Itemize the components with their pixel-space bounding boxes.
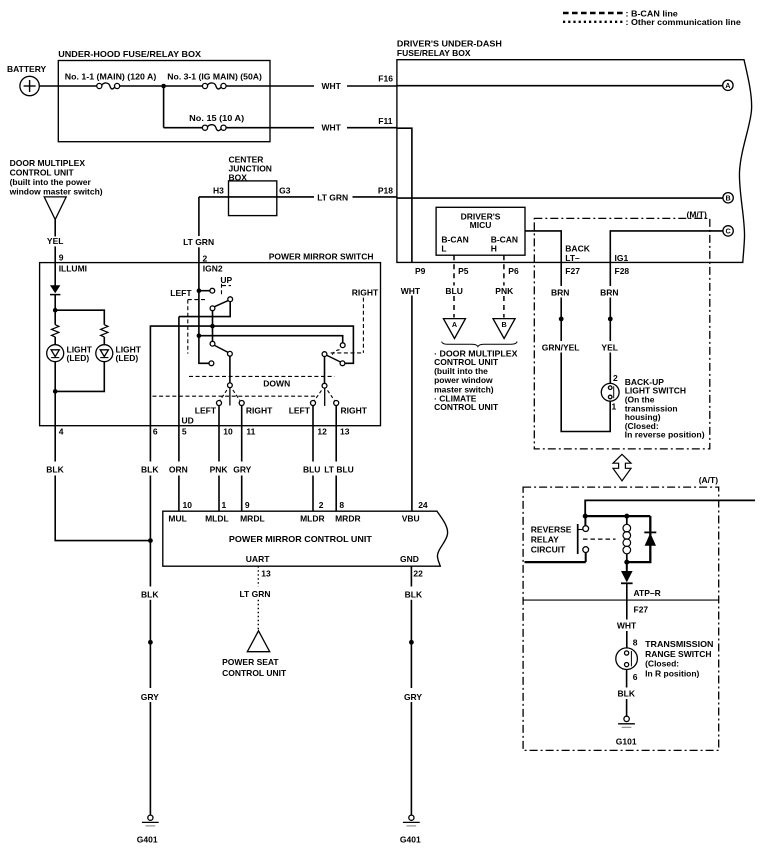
svg-text:9: 9 <box>245 500 250 510</box>
center junction box label <box>229 155 272 183</box>
wire LT BLU to control unit <box>335 476 337 512</box>
ground G101 <box>618 716 635 727</box>
fuse No.1-1 <box>97 83 120 89</box>
wire F28 down to BRN label <box>609 262 611 286</box>
svg-text:BLK: BLK <box>141 464 159 474</box>
selector pivot left <box>228 383 233 388</box>
relay coil <box>623 516 631 562</box>
B-CAN L dashed wire to triangle A <box>453 296 455 318</box>
battery B1 <box>20 76 39 95</box>
reverse relay circuit label <box>531 524 572 554</box>
B-CAN L dashed wire P5 <box>453 255 455 285</box>
wire WHT to F11 <box>347 127 397 129</box>
bus wire 1 <box>150 326 353 426</box>
svg-text:PNK: PNK <box>495 286 514 296</box>
svg-text:BLK: BLK <box>46 464 64 474</box>
svg-text:BLK: BLK <box>405 589 423 599</box>
svg-text:RIGHT: RIGHT <box>246 405 273 415</box>
wire pin9 illumi to diode <box>54 263 56 286</box>
dotted wire UART upper <box>257 566 259 586</box>
wire junction to fuse 15 <box>164 127 203 129</box>
wire reverse relay feed from right <box>585 500 755 516</box>
wire pin6 BLK down <box>149 476 151 587</box>
wire triangle to YEL <box>54 220 56 237</box>
junction dot LED branch top <box>53 308 58 313</box>
off-page triangle A <box>443 319 465 339</box>
selector linkage dashes left <box>220 390 240 400</box>
LED lamp left <box>47 345 64 362</box>
svg-text:REVERSE: REVERSE <box>531 524 572 534</box>
svg-text:22: 22 <box>413 568 423 578</box>
svg-text:A: A <box>725 81 730 90</box>
svg-text:YEL: YEL <box>601 342 618 352</box>
wire pin12 <box>312 406 314 426</box>
svg-text:F16: F16 <box>378 74 393 84</box>
svg-text:MRDR: MRDR <box>335 514 361 524</box>
back-up light switch note <box>625 377 705 440</box>
svg-text:H: H <box>491 243 497 253</box>
LIGHT (LED) label left <box>67 344 93 363</box>
B-CAN H dashed wire to triangle B <box>503 296 505 318</box>
wire F27 to WHT <box>626 600 628 619</box>
svg-text:BRN: BRN <box>600 287 618 297</box>
left rocker arm tip lower contact <box>228 351 233 356</box>
wire pin13 <box>335 406 337 426</box>
resistor right <box>101 325 108 337</box>
svg-text:In reverse position): In reverse position) <box>625 430 705 440</box>
wire WHT to transmission range switch <box>626 631 628 649</box>
wire BLU to control unit <box>312 476 314 512</box>
svg-text:RELAY: RELAY <box>531 534 559 544</box>
brace under triangles <box>442 342 518 347</box>
splice dot F27 wire <box>559 317 564 322</box>
svg-text:24: 24 <box>418 500 428 510</box>
svg-text:BLU: BLU <box>303 464 320 474</box>
svg-text:13: 13 <box>261 568 271 578</box>
selector arm left <box>229 388 231 406</box>
door multiplex control unit label <box>9 158 103 196</box>
wire WHT to F16 <box>347 85 397 87</box>
svg-text:WHT: WHT <box>401 286 421 296</box>
wire switch to BLK <box>626 670 628 688</box>
left rocker pivot upper <box>210 306 215 311</box>
wire resistor to LED right <box>103 337 105 345</box>
svg-text:LT GRN: LT GRN <box>239 589 270 599</box>
wire fuse1 to junction <box>120 85 203 87</box>
svg-text:F28: F28 <box>615 266 630 276</box>
wire BLK to splice left <box>149 600 151 688</box>
svg-text:CONTROL UNIT: CONTROL UNIT <box>434 402 499 412</box>
wire LED right to junction bottom <box>55 362 104 392</box>
relay diode branch wire <box>627 516 651 562</box>
svg-text:POWER SEAT: POWER SEAT <box>222 657 279 667</box>
wire coil bottom to diode <box>626 562 628 571</box>
A/T dash-dot box <box>523 487 719 750</box>
left rocker arm tip contact <box>228 297 233 302</box>
wire arm tip to selector pivot left <box>229 356 231 383</box>
left rocker arm lower <box>214 345 228 352</box>
svg-text:6: 6 <box>153 427 158 437</box>
up contact <box>210 288 215 293</box>
wire fuse15 to WHT label <box>226 127 314 129</box>
svg-text:: B-CAN line: : B-CAN line <box>626 9 679 18</box>
svg-text:(LED): (LED) <box>116 353 139 363</box>
wire BLK to splice right <box>410 600 412 688</box>
wire IGN2 to up contact <box>199 290 210 292</box>
svg-text:FUSE/RELAY BOX: FUSE/RELAY BOX <box>397 48 471 58</box>
under-hood fuse/relay box <box>58 61 270 142</box>
svg-text:F27: F27 <box>565 266 580 276</box>
svg-text:L: L <box>441 243 446 253</box>
splice dot F28 wire <box>608 317 613 322</box>
svg-text:RANGE SWITCH: RANGE SWITCH <box>645 649 711 659</box>
wire BRN to GRN/YEL <box>560 298 562 342</box>
svg-text:LEFT: LEFT <box>195 405 217 415</box>
back-up light switch <box>601 383 619 401</box>
svg-text:F11: F11 <box>378 116 392 126</box>
svg-text:BATTERY: BATTERY <box>7 64 47 74</box>
right rocker lower contact <box>340 361 345 366</box>
wire pin10 <box>218 406 220 426</box>
wire BLK to ground <box>626 699 628 716</box>
svg-text:A: A <box>452 320 457 329</box>
power mirror control unit box with torn right edge <box>163 511 448 566</box>
fuse No.15 <box>202 125 226 131</box>
mech linkage dashed selector row lower <box>153 395 317 397</box>
power mirror switch box <box>40 263 381 426</box>
svg-text:C: C <box>725 227 730 236</box>
svg-text:BLU: BLU <box>445 286 462 296</box>
wire GRY to ground right <box>410 702 412 815</box>
svg-text:9: 9 <box>59 252 64 262</box>
svg-text:B: B <box>725 193 730 202</box>
svg-text:6: 6 <box>633 672 638 682</box>
selector linkage dashes right <box>315 390 335 400</box>
wire LT GRN to pin 2 <box>198 247 200 262</box>
svg-text:G3: G3 <box>279 185 291 195</box>
svg-text:ILLUMI: ILLUMI <box>59 264 87 274</box>
svg-text:1: 1 <box>612 402 617 412</box>
junction dot fuse bus <box>161 84 166 89</box>
wire pin11 <box>241 406 243 426</box>
right rocker pivot <box>322 352 327 357</box>
wire pin11 GRY upper <box>241 426 243 462</box>
wire LT GRN down leg <box>198 197 200 236</box>
svg-text:WHT: WHT <box>322 81 342 91</box>
driver's MICU box <box>436 207 525 255</box>
svg-text:P9: P9 <box>415 266 426 276</box>
svg-text:(Closed:: (Closed: <box>645 659 679 669</box>
LIGHT (LED) label right <box>116 344 142 363</box>
svg-text:LEFT: LEFT <box>289 405 311 415</box>
connector A <box>723 80 733 90</box>
svg-text:RIGHT: RIGHT <box>352 288 379 298</box>
destination notes list <box>434 349 518 413</box>
right rocker upper contact <box>340 343 345 348</box>
svg-text:10: 10 <box>183 500 193 510</box>
wire branch to right LED <box>55 310 104 325</box>
svg-text:ORN: ORN <box>169 464 188 474</box>
ground G401 right <box>403 815 420 826</box>
svg-text:DOWN: DOWN <box>263 379 290 389</box>
wire GND BLK upper <box>410 566 412 586</box>
LED lamp right <box>96 345 113 362</box>
connector C <box>723 226 733 236</box>
wire pin10 PNK upper <box>218 426 220 462</box>
mech linkage dashed right <box>331 298 364 355</box>
svg-text:2: 2 <box>319 500 324 510</box>
svg-text:MICU: MICU <box>470 220 492 230</box>
M/T dash-dot box <box>534 218 710 449</box>
wire P18 to connector B <box>397 197 723 199</box>
power seat control unit label <box>222 657 287 678</box>
wire UD leg down to pin 5 <box>178 317 180 426</box>
svg-text:1: 1 <box>222 500 227 510</box>
wire pin13 LT BLU upper <box>335 426 337 462</box>
svg-text:DRIVER'S UNDER-DASH: DRIVER'S UNDER-DASH <box>397 38 502 48</box>
wire YEL to back-up light switch pin 2 <box>609 353 611 385</box>
wire pin4 BLK upper <box>54 426 56 462</box>
illumination diode <box>50 285 60 294</box>
svg-text:P18: P18 <box>378 186 393 196</box>
svg-text:G401: G401 <box>400 834 421 844</box>
junction dot coil bottom <box>624 560 629 565</box>
splice dot right ground wire <box>409 640 414 645</box>
transmission range switch <box>616 648 638 670</box>
wire LED left to junction bottom <box>54 362 56 426</box>
wire pin12 BLU upper <box>312 426 314 462</box>
left contact pin12 <box>311 401 316 406</box>
wire BRN to YEL <box>609 298 611 342</box>
wire IG1 corner to connector C <box>610 231 723 263</box>
svg-text:POWER MIRROR CONTROL UNIT: POWER MIRROR CONTROL UNIT <box>229 534 373 544</box>
svg-text:GRN/YEL: GRN/YEL <box>542 342 580 352</box>
svg-text:F27: F27 <box>634 604 649 614</box>
svg-text:YEL: YEL <box>47 236 64 246</box>
junction dot relay contact <box>583 514 588 519</box>
junction dot IGN2 wire2 <box>197 333 202 338</box>
svg-text:BLK: BLK <box>141 589 159 599</box>
wire diode to ATP-R terminal <box>626 583 628 600</box>
selector arm right <box>324 388 326 406</box>
right rocker arm <box>327 355 341 362</box>
wire MICU to F27 corner <box>525 231 561 263</box>
wire relay contact to box edge <box>525 561 586 563</box>
relay linkage dashed <box>583 538 616 540</box>
svg-text:P6: P6 <box>508 266 519 276</box>
svg-text:ATP–R: ATP–R <box>634 588 661 598</box>
svg-text:13: 13 <box>340 427 350 437</box>
off-page triangle B <box>493 319 515 339</box>
svg-text:TRANSMISSION: TRANSMISSION <box>645 639 713 649</box>
svg-text:MRDL: MRDL <box>240 514 265 524</box>
svg-text:P5: P5 <box>458 266 469 276</box>
wire GRN/YEL down and right to back-up light switch <box>561 353 610 432</box>
legend other communication line sample <box>563 21 623 23</box>
junction dot LED branch bottom <box>53 389 58 394</box>
wire PNK to control unit <box>218 476 220 512</box>
fuse No.3-1 <box>202 83 226 89</box>
mech linkage dashed left box <box>188 300 208 354</box>
right contact pin11 <box>239 401 244 406</box>
wire ORN to control unit <box>178 476 180 512</box>
M/T A/T selector arrow <box>613 454 631 481</box>
wire diode to junction <box>54 295 56 325</box>
svg-text:4: 4 <box>59 427 64 437</box>
relay top bus wire <box>585 515 650 517</box>
svg-text:window master switch): window master switch) <box>9 186 103 196</box>
wire resistor to LED left <box>54 337 56 345</box>
relay contact <box>578 516 589 562</box>
svg-text:BRN: BRN <box>551 287 569 297</box>
B-CAN H dashed wire P6 <box>503 255 505 285</box>
svg-text:WHT: WHT <box>322 123 342 133</box>
junction dot pivot wire1 <box>210 324 215 329</box>
svg-text:: Other communication line: : Other communication line <box>626 18 742 27</box>
svg-text:IG1: IG1 <box>615 253 629 263</box>
svg-text:No. 3-1 (IG MAIN) (50A): No. 3-1 (IG MAIN) (50A) <box>167 71 262 81</box>
wire pin6 BLK upper <box>149 426 151 462</box>
wire F27 down to BRN label <box>560 262 562 286</box>
down contact left <box>209 361 214 366</box>
svg-text:LEFT: LEFT <box>170 288 192 298</box>
svg-text:B: B <box>501 320 506 329</box>
left rocker arm upper <box>214 300 229 307</box>
wire fuse 3-1 to WHT label <box>226 85 314 87</box>
svg-text:UART: UART <box>246 554 270 564</box>
A/T fuse box divider line <box>523 599 719 601</box>
wire GRY to control unit <box>241 476 243 512</box>
wire pin4 BLK to join <box>55 476 150 541</box>
svg-text:LT–: LT– <box>565 253 580 263</box>
power seat off-page triangle <box>247 631 269 652</box>
svg-text:LT GRN: LT GRN <box>183 237 214 247</box>
relay clamp diode <box>644 532 656 545</box>
connector B <box>723 193 733 203</box>
splice dot left ground wire <box>148 640 153 645</box>
right contact pin13 <box>334 401 339 406</box>
bus wire 2 <box>199 336 343 343</box>
wire F11 into box <box>397 128 412 262</box>
svg-text:10: 10 <box>223 427 233 437</box>
svg-text:CONTROL UNIT: CONTROL UNIT <box>222 668 287 678</box>
svg-text:G101: G101 <box>616 736 637 746</box>
svg-text:8: 8 <box>339 500 344 510</box>
left rocker pivot lower <box>210 341 215 346</box>
svg-text:PNK: PNK <box>210 464 229 474</box>
mech linkage dashed UP <box>222 284 232 297</box>
svg-text:8: 8 <box>633 637 638 647</box>
svg-text:12: 12 <box>317 427 327 437</box>
wire P18 LT GRN horizontal <box>199 196 397 198</box>
svg-text:UNDER-HOOD FUSE/RELAY BOX: UNDER-HOOD FUSE/RELAY BOX <box>58 49 201 59</box>
mech linkage dashed selector row upper <box>189 375 335 377</box>
svg-text:UP: UP <box>220 275 232 285</box>
svg-text:H3: H3 <box>213 185 224 195</box>
svg-text:No. 1-1 (MAIN) (120 A): No. 1-1 (MAIN) (120 A) <box>65 71 157 81</box>
wire pin5 ORN upper <box>178 426 180 462</box>
wire junction down to fuse No.15 <box>163 86 165 128</box>
svg-text:UD: UD <box>182 416 194 426</box>
legend B-CAN line sample <box>563 12 623 14</box>
svg-text:CIRCUIT: CIRCUIT <box>531 545 566 555</box>
door multiplex control unit off-page triangle <box>44 197 66 220</box>
wire YEL to pin 9 <box>54 246 56 262</box>
svg-text:(built into the power: (built into the power <box>10 177 92 187</box>
svg-text:DOOR MULTIPLEX: DOOR MULTIPLEX <box>10 158 86 168</box>
svg-text:IGN2: IGN2 <box>203 264 223 274</box>
svg-text:MLDR: MLDR <box>300 514 325 524</box>
center junction box <box>229 181 277 216</box>
svg-text:GRY: GRY <box>233 464 251 474</box>
svg-text:No. 15 (10 A): No. 15 (10 A) <box>189 113 244 123</box>
svg-text:In R position): In R position) <box>645 668 699 678</box>
junction dot relay coil <box>624 514 629 519</box>
svg-text:(LED): (LED) <box>67 353 90 363</box>
wire GRY to ground left <box>149 702 151 815</box>
svg-text:VBU: VBU <box>402 514 420 524</box>
resistor left <box>52 325 59 337</box>
svg-text:MUL: MUL <box>168 514 186 524</box>
wire right pivot to selector pivot <box>324 357 326 384</box>
svg-text:G401: G401 <box>137 834 158 844</box>
svg-text:2: 2 <box>613 373 618 383</box>
wire F16 to connector A <box>397 85 723 87</box>
svg-text:LT GRN: LT GRN <box>317 192 348 202</box>
transmission range switch note <box>645 639 713 678</box>
svg-text:GRY: GRY <box>141 692 159 702</box>
ground G401 left <box>142 815 159 826</box>
svg-text:LT BLU: LT BLU <box>324 464 354 474</box>
svg-text:11: 11 <box>246 427 255 437</box>
junction dot BLK join <box>148 538 153 543</box>
wire P9 WHT down <box>411 296 413 512</box>
svg-text:GND: GND <box>400 554 419 564</box>
series diode <box>621 571 633 583</box>
dotted wire UART to power seat triangle <box>257 600 259 630</box>
left contact pin10 <box>217 401 222 406</box>
svg-text:(A/T): (A/T) <box>699 475 719 485</box>
junction dot IGN2 up contact <box>197 288 202 293</box>
driver's under-dash fuse/relay box outline with torn right edge <box>397 60 752 263</box>
wire battery to box <box>39 85 96 87</box>
svg-text:GRY: GRY <box>404 692 422 702</box>
svg-text:BLK: BLK <box>618 689 636 699</box>
wire pivot chain <box>212 311 214 342</box>
svg-text:WHT: WHT <box>617 621 637 631</box>
svg-text:RIGHT: RIGHT <box>341 405 368 415</box>
wire arm tip to UD leg <box>179 302 230 317</box>
wire IGN2 vertical <box>199 263 212 364</box>
svg-text:MLDL: MLDL <box>205 514 229 524</box>
svg-text:POWER MIRROR SWITCH: POWER MIRROR SWITCH <box>269 251 374 261</box>
selector pivot right <box>322 383 327 388</box>
svg-text:5: 5 <box>182 427 187 437</box>
